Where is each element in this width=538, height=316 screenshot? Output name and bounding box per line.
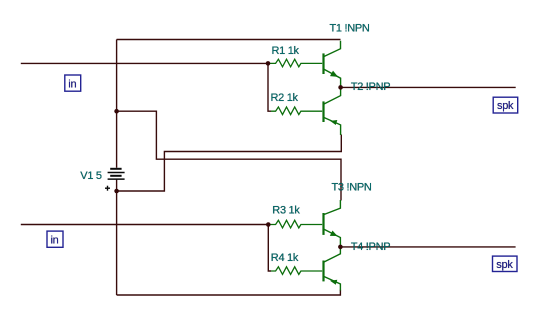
wire in top xyxy=(21,62,268,64)
transistor T2 xyxy=(324,87,341,135)
wire spk bottom xyxy=(340,246,515,248)
svg-text:spk: spk xyxy=(496,259,513,271)
svg-text:in: in xyxy=(51,235,59,247)
svg-text:T4 !PNP: T4 !PNP xyxy=(351,241,390,253)
wire left vertical upper xyxy=(116,40,118,168)
node dot R3 xyxy=(266,222,271,227)
wire spk top xyxy=(341,86,516,88)
battery V1 xyxy=(105,169,125,191)
svg-text:T3 !NPN: T3 !NPN xyxy=(332,181,372,193)
wire R4 branch xyxy=(268,225,271,272)
svg-text:R2 1k: R2 1k xyxy=(271,92,299,104)
wire battery plus xyxy=(117,135,342,192)
resistor R1 xyxy=(270,59,322,67)
svg-text:R1 1k: R1 1k xyxy=(272,45,300,57)
wire in bottom xyxy=(21,224,268,226)
port spk top xyxy=(493,97,518,113)
resistor R2 xyxy=(271,107,322,115)
port in bottom xyxy=(47,231,63,247)
port spk bottom xyxy=(493,256,518,271)
node dot out bottom xyxy=(338,245,343,250)
wire node mid upper xyxy=(117,111,341,200)
svg-text:T1 !NPN: T1 !NPN xyxy=(330,23,370,35)
svg-text:in: in xyxy=(68,79,76,91)
wire left vertical lower xyxy=(116,180,118,295)
svg-text:T2 !PNP: T2 !PNP xyxy=(351,81,390,93)
svg-text:R4 1k: R4 1k xyxy=(271,252,299,264)
svg-text:R3 1k: R3 1k xyxy=(272,205,300,217)
wire top rail xyxy=(117,39,341,41)
port in top xyxy=(65,75,81,91)
resistor R4 xyxy=(271,267,322,275)
svg-text:V1 5: V1 5 xyxy=(80,170,102,182)
resistor R3 xyxy=(270,220,322,228)
transistor T1 xyxy=(324,41,341,88)
svg-text:spk: spk xyxy=(497,100,514,112)
node dot left mid xyxy=(114,109,119,114)
node dot battery xyxy=(114,189,119,194)
transistor T4 xyxy=(324,247,341,291)
node dot R1 xyxy=(266,61,271,66)
node dot out top xyxy=(338,85,343,90)
wire bottom rail xyxy=(117,290,341,295)
wire R2 branch xyxy=(268,63,271,111)
transistor T3 xyxy=(324,200,341,247)
